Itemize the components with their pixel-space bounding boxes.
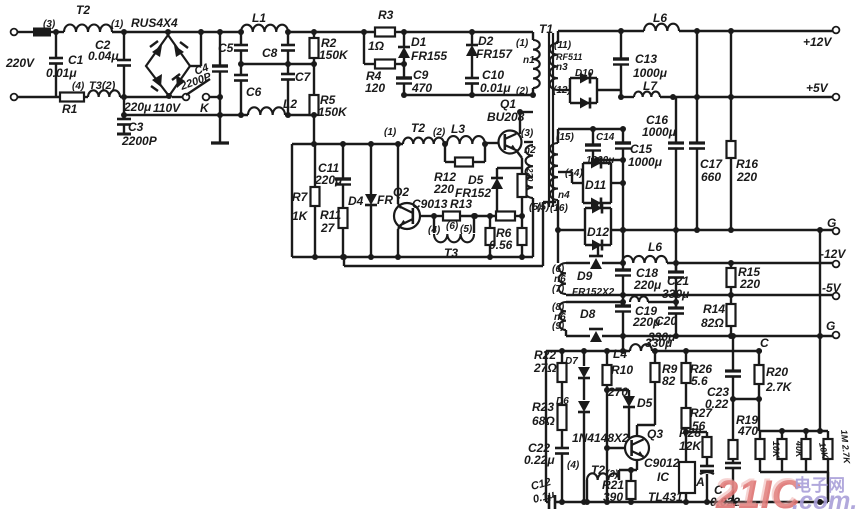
svg-text:G: G <box>826 319 835 333</box>
svg-text:T2: T2 <box>591 463 605 477</box>
svg-text:R1: R1 <box>62 102 78 116</box>
capacitor C9 470 <box>403 64 405 78</box>
svg-text:R22: R22 <box>534 348 556 362</box>
svg-text:150K: 150K <box>318 105 348 119</box>
resistor R19 470 <box>732 399 734 440</box>
svg-text:FR: FR <box>377 193 393 207</box>
resistor R20 2.7K <box>758 351 760 365</box>
rectifier D12 pair <box>584 208 586 245</box>
svg-text:R3: R3 <box>378 8 394 22</box>
resistor R4 120 <box>363 32 365 64</box>
wire <box>18 31 34 33</box>
switch K terminal left <box>183 94 190 101</box>
svg-text:Q2: Q2 <box>393 185 409 199</box>
svg-text:27Ω: 27Ω <box>533 361 557 375</box>
capacitor C4 2200P <box>219 32 221 66</box>
wire D11 top <box>596 160 598 163</box>
svg-text:IC: IC <box>657 470 669 484</box>
resistor R22 27ohm <box>561 351 563 363</box>
svg-text:D7: D7 <box>565 356 578 367</box>
diode D2 FR157 <box>471 32 473 45</box>
svg-text:L4: L4 <box>613 347 627 361</box>
svg-text:(3): (3) <box>521 128 534 139</box>
resistor R11 27 <box>339 208 348 228</box>
wire Q3 collector <box>636 425 638 436</box>
svg-text:C15: C15 <box>630 142 652 156</box>
resistor divider 4 <box>827 431 829 439</box>
svg-text:K: K <box>200 101 210 115</box>
svg-text:12K: 12K <box>679 439 702 453</box>
rectifier D11 pair <box>582 163 584 203</box>
svg-text:n4: n4 <box>558 190 570 201</box>
svg-text:10K: 10K <box>771 441 781 459</box>
svg-text:+5V: +5V <box>806 81 829 95</box>
svg-text:1Ω: 1Ω <box>368 39 385 53</box>
svg-text:+12V: +12V <box>803 35 832 49</box>
terminal G bottom <box>833 332 840 339</box>
wire base bus y216 <box>430 215 443 217</box>
inductor L3 <box>444 143 447 145</box>
resistor R13 <box>443 212 460 221</box>
inductor L4 <box>630 344 652 351</box>
resistor R10 emitter <box>516 150 522 158</box>
node at C1 <box>53 29 59 35</box>
svg-text:RF511: RF511 <box>556 52 582 62</box>
terminal +5V <box>833 94 840 101</box>
resistor parallel <box>496 212 515 221</box>
svg-text:Q1: Q1 <box>500 97 516 111</box>
capacitor C19 220u <box>615 304 631 307</box>
resistor R14 82ohm <box>727 304 736 326</box>
switch K lever <box>186 79 210 95</box>
inductor T3 feedback winding <box>433 216 435 233</box>
svg-text:D2: D2 <box>478 34 494 48</box>
svg-text:D6: D6 <box>556 396 569 407</box>
svg-text:T1: T1 <box>539 22 553 36</box>
svg-text:(5): (5) <box>537 202 550 213</box>
svg-text:(1): (1) <box>111 19 124 30</box>
diode D6 <box>583 378 585 400</box>
capacitor C12 0.1u <box>548 495 551 509</box>
svg-text:40K: 40K <box>794 440 804 459</box>
transistor Q1 BU208 <box>499 131 522 154</box>
svg-text:220: 220 <box>433 182 454 196</box>
wire top bus <box>112 31 241 33</box>
svg-text:RUS4X4: RUS4X4 <box>131 16 178 30</box>
svg-text:0.01μ: 0.01μ <box>46 66 77 80</box>
svg-text:220V: 220V <box>5 56 35 70</box>
wire D11 to bus <box>611 182 623 184</box>
wire Q1 collector to T1 pin 2 <box>519 112 521 134</box>
svg-text:0.04μ: 0.04μ <box>88 49 119 63</box>
svg-text:n3: n3 <box>556 62 568 73</box>
svg-text:2.7K: 2.7K <box>765 380 793 394</box>
capacitor C8 <box>285 29 291 35</box>
svg-text:(5): (5) <box>460 224 473 235</box>
svg-text:0.22: 0.22 <box>705 397 729 411</box>
capacitor C13 1000u <box>620 31 622 59</box>
capacitor C11 220u <box>342 144 344 179</box>
svg-text:n1: n1 <box>523 55 535 66</box>
fuse F1 <box>33 28 51 37</box>
transistor Q3 C9012 <box>607 447 625 449</box>
svg-text:C: C <box>760 336 769 350</box>
svg-text:27: 27 <box>320 221 336 235</box>
svg-text:(2): (2) <box>516 86 529 97</box>
resistor divider 1 <box>759 431 761 439</box>
transformer T1 winding n3 <box>557 31 559 43</box>
diode D5 FR152 <box>497 167 521 169</box>
capacitor C17 660 <box>696 31 698 143</box>
resistor R23 68ohm <box>558 405 567 430</box>
capacitor comp <box>706 457 708 466</box>
wire bottom bus left block <box>292 256 533 258</box>
diode D4 FR <box>370 144 372 194</box>
svg-text:D1: D1 <box>411 35 427 49</box>
svg-text:-12V: -12V <box>820 247 846 261</box>
wire R10 bottom <box>606 385 608 390</box>
svg-text:C1: C1 <box>68 53 84 67</box>
svg-text:L2: L2 <box>283 97 297 111</box>
svg-text:(1): (1) <box>384 127 397 138</box>
transformer T1 primary n1 <box>532 32 534 40</box>
capacitor C22 0.22u <box>555 447 569 450</box>
svg-text:D10: D10 <box>575 68 594 79</box>
svg-text:150K: 150K <box>319 48 349 62</box>
svg-text:R16: R16 <box>736 157 758 171</box>
svg-text:R13: R13 <box>450 197 472 211</box>
svg-text:L1: L1 <box>252 11 266 25</box>
wire C14 bottom <box>593 159 623 161</box>
resistor R15 220 <box>730 263 732 268</box>
terminal G top <box>833 228 840 235</box>
wire n2 bottom down <box>532 198 534 257</box>
capacitor C10 0.01u <box>465 77 479 80</box>
wire -12V bus <box>667 262 833 264</box>
svg-text:21IC: 21IC <box>713 471 800 515</box>
svg-text:FR152X2: FR152X2 <box>572 287 615 298</box>
svg-text:68Ω: 68Ω <box>532 414 555 428</box>
svg-text:2200P: 2200P <box>121 134 158 148</box>
wire <box>395 31 404 33</box>
inductor L6 <box>644 24 679 31</box>
svg-text:110V: 110V <box>153 101 181 115</box>
ground under C4 <box>211 141 229 144</box>
transistor Q2 <box>397 144 399 204</box>
svg-text:(14): (14) <box>565 168 583 179</box>
svg-text:R10: R10 <box>611 363 633 377</box>
wire Q1 base from L3 <box>485 142 499 144</box>
svg-text:(3): (3) <box>43 19 56 30</box>
wire base bus y144 <box>292 143 403 145</box>
terminal -12V <box>833 261 840 268</box>
diode D9 FR152X2 <box>566 262 590 264</box>
terminal -5V <box>833 293 840 300</box>
svg-text:220μ: 220μ <box>314 173 343 187</box>
svg-text:C8: C8 <box>262 46 278 60</box>
terminal +12V <box>833 27 840 34</box>
wire +12V bus right <box>679 30 833 32</box>
capacitor C14 1000u <box>592 129 594 145</box>
node bottom input <box>121 94 127 100</box>
wire bus to node C <box>652 350 762 352</box>
svg-text:n2: n2 <box>524 145 536 156</box>
IC TL431 <box>679 462 695 493</box>
bridge rectifier RUS4X4 <box>146 35 190 96</box>
resistor R6 0.56 pair <box>489 216 491 228</box>
diode D5 1N4148 <box>628 390 630 396</box>
resistor R26 5.6K <box>685 351 687 363</box>
svg-text:D9: D9 <box>577 269 593 283</box>
svg-text:0.01μ: 0.01μ <box>480 81 511 95</box>
wire mid bus y115 <box>124 114 248 116</box>
resistor divider 3 <box>805 431 807 439</box>
capacitor C6 <box>240 64 242 75</box>
capacitor C5 <box>240 32 242 45</box>
wire R27 to IC <box>685 428 687 462</box>
node bridge bottom <box>166 93 172 99</box>
svg-text:C6: C6 <box>246 85 262 99</box>
resistor R9 82 <box>654 351 656 363</box>
wire +5V bus <box>621 96 634 98</box>
svg-text:0.22μ: 0.22μ <box>524 453 555 467</box>
wire D11 to D12 <box>596 203 598 208</box>
svg-text:5.6: 5.6 <box>691 374 708 388</box>
capacitor C20 330u <box>675 302 677 308</box>
wire n6 lower top <box>566 301 624 303</box>
wire left rail <box>291 144 293 257</box>
svg-text:(4): (4) <box>567 460 580 471</box>
svg-text:A: A <box>695 475 705 489</box>
wire feedback top bus <box>545 351 547 502</box>
svg-text:82: 82 <box>662 374 676 388</box>
svg-text:C17: C17 <box>700 157 723 171</box>
svg-text:(2): (2) <box>433 127 446 138</box>
inductor T3 winding <box>84 96 88 98</box>
svg-text:R20: R20 <box>766 365 788 379</box>
svg-text:D5: D5 <box>468 173 484 187</box>
capacitor C18 220u <box>615 268 631 271</box>
svg-text:R23: R23 <box>532 400 554 414</box>
wire ground bus y230 <box>557 200 559 263</box>
resistor divider 2 <box>781 431 783 439</box>
capacitor C2 0.04u <box>123 32 125 60</box>
wire Q3 emitter <box>636 460 638 470</box>
wire -5V bus <box>566 294 833 296</box>
svg-text:C14: C14 <box>596 132 615 143</box>
svg-text:330μ: 330μ <box>645 336 673 350</box>
svg-text:(11): (11) <box>554 40 572 51</box>
resistor R10 270 <box>606 351 608 365</box>
svg-text:L3: L3 <box>451 122 465 136</box>
inductor L4 small <box>630 296 648 302</box>
svg-text:L6: L6 <box>648 240 662 254</box>
svg-text:1N4148X2: 1N4148X2 <box>572 431 629 445</box>
svg-text:R11: R11 <box>320 208 341 222</box>
capacitor C7 <box>287 64 289 74</box>
transformer T1 winding n6 lower <box>559 302 566 330</box>
wire n4 tap 14 <box>558 171 572 173</box>
svg-text:FR155: FR155 <box>411 49 447 63</box>
svg-text:(1): (1) <box>516 38 529 49</box>
svg-text:C10: C10 <box>482 68 504 82</box>
svg-text:(4): (4) <box>428 225 441 236</box>
svg-text:C20: C20 <box>655 314 677 328</box>
wire top bus to R3 <box>288 31 375 33</box>
wire D12 down to D9 <box>597 245 599 256</box>
wire n4 top bus <box>558 128 623 130</box>
wire return to T1 pin 16 <box>542 202 544 266</box>
wire Q2 base <box>420 215 430 217</box>
wire bottom snubber bus <box>404 94 533 96</box>
resistor R16 220 <box>730 31 732 141</box>
wire +5V bus right <box>660 96 833 98</box>
svg-text:C9012: C9012 <box>644 456 680 470</box>
resistor R21 390 <box>630 470 632 481</box>
transformer T1 winding n4 <box>557 129 559 143</box>
resistor R3 1ohm <box>375 28 395 37</box>
diode D7 <box>583 351 585 366</box>
capacitor C3 2200P <box>123 97 125 115</box>
resistor R7 1K <box>314 144 316 187</box>
inductor L2 <box>248 107 285 115</box>
svg-text:(16): (16) <box>550 203 568 214</box>
svg-text:1000μ: 1000μ <box>628 155 663 169</box>
resistor R2 150K <box>311 29 317 35</box>
transformer T1 core <box>548 33 550 207</box>
svg-text:D11: D11 <box>585 178 606 192</box>
capacitor C21 330u <box>675 263 677 272</box>
svg-text:FR157: FR157 <box>476 47 513 61</box>
svg-text:-5V: -5V <box>822 281 842 295</box>
transformer T1 winding n2 <box>524 141 533 143</box>
inductor L7 <box>634 92 660 97</box>
wire ground bus G <box>602 335 833 337</box>
svg-text:R7: R7 <box>292 190 309 204</box>
svg-text:470: 470 <box>737 424 758 438</box>
svg-text:220: 220 <box>736 170 757 184</box>
inductor T2 winding <box>64 25 112 32</box>
svg-text:R14: R14 <box>703 302 725 316</box>
resistor R5 150K <box>313 64 315 95</box>
svg-text:D12: D12 <box>587 225 609 239</box>
resistor R12 220 <box>444 144 446 162</box>
wire divider top <box>759 430 828 432</box>
switch K terminal right <box>203 94 210 101</box>
svg-text:220μ: 220μ <box>633 278 662 292</box>
svg-text:G: G <box>827 216 836 230</box>
svg-text:1000μ: 1000μ <box>642 125 677 139</box>
diode D8 <box>565 330 567 336</box>
svg-text:T2: T2 <box>411 121 425 135</box>
transformer T1 winding n6 upper <box>559 263 566 294</box>
svg-text:T2: T2 <box>76 3 90 17</box>
wire top bus to T1 <box>472 31 533 33</box>
svg-text:D4: D4 <box>348 194 364 208</box>
inductor L1 <box>238 29 244 35</box>
terminal AC live input <box>11 29 18 36</box>
capacitor C15 1000u <box>622 129 624 143</box>
svg-text:1000μ: 1000μ <box>633 66 668 80</box>
svg-text:D5: D5 <box>637 396 653 410</box>
svg-text:Q3: Q3 <box>647 427 663 441</box>
wire <box>51 31 64 33</box>
wire bridge top to bus <box>167 32 169 35</box>
rectifier D10 pair <box>558 89 570 91</box>
wire lower return bus <box>343 257 345 266</box>
svg-text:C7: C7 <box>295 70 312 84</box>
svg-text:C5: C5 <box>218 41 234 55</box>
node at C2 <box>121 29 127 35</box>
svg-text:220: 220 <box>739 277 760 291</box>
wire sub bus y64 <box>241 63 314 65</box>
svg-text:.com.: .com. <box>792 487 857 515</box>
svg-text:(6): (6) <box>446 221 459 232</box>
svg-text:1K: 1K <box>292 209 309 223</box>
svg-text:C13: C13 <box>635 52 657 66</box>
capacitor C1 0.01u <box>55 32 57 58</box>
resistor R27 56 <box>685 383 687 408</box>
svg-text:C9: C9 <box>413 68 429 82</box>
svg-text:C21: C21 <box>667 274 689 288</box>
svg-text:(7): (7) <box>552 284 565 295</box>
diode D1 FR155 <box>403 32 405 47</box>
svg-text:(15): (15) <box>556 132 574 143</box>
wire <box>18 96 61 98</box>
wire divider bottom <box>760 471 828 473</box>
terminal AC neutral input <box>11 94 18 101</box>
wire D10 out <box>597 89 621 91</box>
svg-text:120: 120 <box>365 81 385 95</box>
wire top bus to D2 <box>404 31 472 33</box>
svg-text:470: 470 <box>411 81 432 95</box>
svg-text:C3: C3 <box>128 120 144 134</box>
svg-text:R28: R28 <box>679 426 701 440</box>
resistor R28 12K <box>686 431 707 433</box>
svg-text:(4): (4) <box>72 81 85 92</box>
wire K to C4 column <box>210 96 221 98</box>
wire <box>460 215 496 217</box>
svg-text:(9): (9) <box>552 321 565 332</box>
wire bridge right to C4 column <box>190 65 201 67</box>
resistor R1 <box>60 93 84 102</box>
inductor L5 <box>622 256 667 263</box>
capacitor C23 0.22 <box>732 335 734 371</box>
wire +12V top bus <box>558 30 644 32</box>
wire right rail <box>819 230 821 431</box>
svg-text:660: 660 <box>701 170 721 184</box>
svg-text:L7: L7 <box>643 79 658 93</box>
wire bottom bus <box>124 96 169 98</box>
capacitor C16 1000u <box>675 97 677 143</box>
capacitor C24 0.022 <box>732 459 734 463</box>
svg-text:L6: L6 <box>653 11 667 25</box>
wire bottom bus <box>546 501 549 503</box>
svg-text:0.56: 0.56 <box>489 238 513 252</box>
svg-text:82Ω: 82Ω <box>701 316 724 330</box>
svg-text:D8: D8 <box>580 307 596 321</box>
svg-text:220μ: 220μ <box>123 100 152 114</box>
